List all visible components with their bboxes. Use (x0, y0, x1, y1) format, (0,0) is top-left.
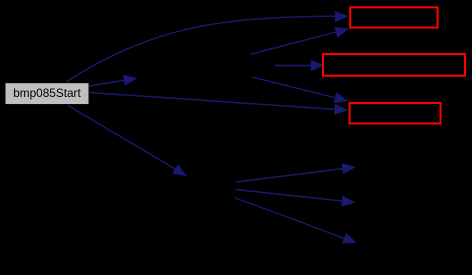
node1 red-bordered box (truncated callee) (350, 7, 437, 27)
edge bmp085Start->node3 (89, 93, 337, 110)
node2 red-bordered box (truncated callee) (323, 54, 465, 76)
arrowhead into node3 lower (334, 104, 348, 115)
edge nodeA->node1 (250, 32, 338, 55)
arrowhead into nodeR2 (341, 195, 355, 206)
arrowhead into nodeB (172, 164, 187, 176)
edge bmp085Start->nodeB (68, 106, 176, 170)
edge nodeA->node3 (252, 77, 337, 98)
arrowhead into nodeA (123, 75, 138, 86)
arrowhead into node3 upper (334, 92, 349, 103)
node3 red-bordered box (truncated callee) (350, 103, 441, 124)
edge bmp085Start->nodeA (89, 80, 126, 86)
arrowhead into node1 lower (335, 27, 350, 38)
edge nodeB->nodeR2 (236, 190, 343, 202)
svg-text:bmp085Start: bmp085Start (13, 86, 81, 100)
edge nodeB->nodeR3 (235, 198, 345, 239)
arrowhead into nodeR1 (342, 163, 356, 174)
arrowhead into nodeR3 (342, 233, 357, 244)
current-function node bmp085Start (grey) (5, 83, 89, 105)
edge nodeA->node2 (275, 65, 311, 67)
arrowhead into node2 (311, 60, 325, 71)
edge bmp085Start->node1 (top arc) (66, 16, 336, 82)
arrowhead into node1 upper (335, 11, 349, 22)
edge nodeB->nodeR1 (236, 169, 343, 182)
